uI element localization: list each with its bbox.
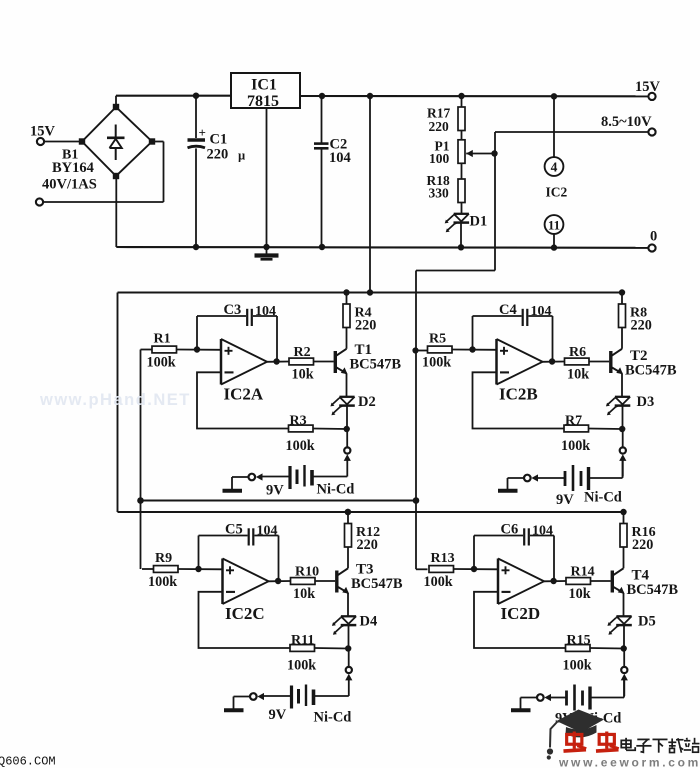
svg-text:R15: R15 [567,633,591,648]
svg-text:R2: R2 [294,345,311,360]
svg-text:R13: R13 [431,551,455,566]
wire [269,580,291,582]
node [367,289,373,295]
ground [224,708,244,712]
svg-text:9V: 9V [266,483,284,499]
wire [461,203,463,214]
svg-text:C1: C1 [210,132,228,148]
svg-text:IC2B: IC2B [499,385,538,404]
wire [621,293,623,305]
wire [199,592,291,648]
wire [177,349,222,351]
op-amp IC2A [221,339,267,404]
node [458,93,464,99]
svg-text:www.eeworm.com: www.eeworm.com [558,756,700,768]
wire 8.5-10V rail [495,131,649,133]
svg-text:9V: 9V [556,492,574,508]
transistor T3 [337,562,403,594]
LED D1 [445,214,488,233]
wire [140,350,142,570]
connector jack [621,667,628,681]
wire [623,512,625,524]
resistor R9 [142,551,178,590]
transistor T4 [612,568,678,599]
svg-text:100k: 100k [286,438,315,454]
svg-text:4: 4 [551,160,558,175]
wire [313,428,347,431]
svg-text:IC2D: IC2D [501,604,541,623]
wire [474,592,566,648]
node [367,93,373,99]
svg-text:11: 11 [548,218,560,233]
wire [346,373,348,396]
svg-text:D4: D4 [360,614,378,630]
regulator IC1 7815 [231,73,300,110]
wire [197,372,289,428]
svg-text:10k: 10k [567,367,589,383]
wire 0V rail [116,246,648,249]
svg-text:100k: 100k [424,574,453,590]
svg-text:Q606.COM: Q606.COM [0,755,56,768]
node IC2A output [273,358,279,364]
svg-text:R9: R9 [155,551,172,566]
svg-text:220: 220 [429,119,450,134]
wire [461,163,463,179]
wire [622,429,624,447]
svg-text:0: 0 [650,229,657,245]
wire [494,132,496,271]
node [413,497,420,504]
wire [152,142,164,203]
resistor R16 [620,524,656,554]
ground [223,489,243,493]
wire [591,580,611,582]
op-amp IC2D [498,559,544,624]
wire [315,580,335,582]
wire [232,477,248,489]
svg-text:220: 220 [355,318,376,334]
node IC2C output [275,578,281,584]
resistor R2 [289,345,314,383]
svg-text:BC547B: BC547B [627,582,679,598]
wire [623,649,625,667]
battery 9V / Ni-Cd cell s3 [264,685,351,726]
wire [553,96,555,157]
wire [416,270,495,272]
svg-text:7815: 7815 [247,93,279,110]
resistor R10 [291,565,320,603]
ground [511,708,531,712]
node [491,150,497,156]
wire [529,316,553,362]
svg-text:C3: C3 [224,302,242,318]
wire [199,536,248,570]
wire [347,547,349,568]
node R12 supply [345,509,351,515]
wire [115,176,117,247]
wire [267,361,289,363]
wire [348,649,350,667]
wire [622,406,624,428]
svg-text:8.5~10V: 8.5~10V [601,114,652,130]
svg-text:C6: C6 [501,522,519,538]
wire [622,460,624,477]
svg-text:9V: 9V [269,707,287,723]
svg-text:100k: 100k [287,658,316,674]
wire [454,568,499,570]
wire [530,536,554,582]
ground [498,489,518,493]
node emitter R7 [619,426,625,432]
wire [314,361,334,363]
node [319,244,325,250]
svg-text:220: 220 [631,318,652,334]
wire [178,568,223,570]
node [137,497,144,504]
switch plug [249,473,263,480]
node [263,244,269,250]
svg-text:D5: D5 [638,614,656,630]
IC2 pin 4 [545,157,564,176]
switch plug [250,693,264,700]
svg-text:R3: R3 [290,414,307,429]
svg-text:BC547B: BC547B [350,357,402,373]
resistor R11 [287,633,316,674]
switch plug [537,694,551,701]
wire [346,406,348,428]
output terminal 0V [648,229,657,252]
wire [315,647,349,650]
svg-text:100k: 100k [561,438,590,454]
node IC2B output [549,358,555,364]
wire [346,328,348,349]
svg-text:100k: 100k [422,355,451,371]
wire [473,372,565,428]
node R1 output [194,346,200,352]
svg-text:R11: R11 [291,633,314,648]
wire [543,361,565,363]
wire [521,698,537,709]
wire [460,224,462,248]
svg-text:15V: 15V [30,124,56,140]
node [551,244,557,250]
capacitor C3 [224,302,277,326]
output terminal 15V [635,79,661,100]
resistor R15 [563,633,592,674]
node R5 output [469,346,475,352]
wire [623,593,625,616]
wire [197,316,246,350]
wire stage supply rail [118,292,624,294]
resistor R8 [619,304,652,334]
node [193,93,199,99]
svg-text:IC1: IC1 [251,77,277,94]
resistor R14 [566,565,595,603]
svg-text:+: + [199,125,206,140]
node R8 supply [619,289,625,295]
connector jack [345,667,352,681]
wire [589,361,609,363]
op-amp IC2C [223,559,269,624]
connector jack [619,447,626,461]
wire [544,580,566,582]
svg-text:100k: 100k [147,355,176,371]
svg-text:µ: µ [238,149,245,163]
wire [452,349,497,351]
wire [43,201,163,203]
connector jack [344,447,351,461]
node emitter R3 [344,426,350,432]
op-amp IC2B [497,339,543,404]
wire [253,316,277,362]
svg-text:C4: C4 [499,302,517,318]
wire [115,96,117,107]
svg-text:BC547B: BC547B [625,363,677,379]
battery 9V / Ni-Cd cell s2 [538,460,623,509]
wire [255,536,279,582]
switch plug [524,474,538,481]
svg-text:R5: R5 [429,332,446,347]
svg-text:R6: R6 [569,345,586,360]
node emitter R15 [621,645,627,651]
watermark mortarboard logo [547,710,604,760]
wire [346,460,348,477]
svg-text:Ni-Cd: Ni-Cd [317,482,355,498]
svg-text:R14: R14 [571,565,595,580]
wire [369,96,371,293]
wiper of P1 [466,150,495,157]
wire 15V rail [116,95,649,98]
LED D5 [607,614,655,635]
wire [474,536,523,570]
svg-text:Ni-Cd: Ni-Cd [314,710,352,726]
svg-text:10k: 10k [293,586,315,602]
svg-text:10k: 10k [292,367,314,383]
resistor R7 [561,414,590,455]
svg-text:R1: R1 [154,332,171,347]
IC2 pin 11 [545,215,564,234]
svg-text:D2: D2 [358,394,376,410]
resistor R1 [141,332,177,371]
svg-text:100k: 100k [563,658,592,674]
label B1 [42,148,97,193]
svg-text:100: 100 [429,151,450,166]
wire [44,141,82,143]
wire [348,626,350,648]
node R9 output [195,566,201,572]
wire [553,234,555,248]
input terminal 15V AC [30,124,56,146]
faint watermark [39,391,191,409]
battery 9V / Ni-Cd cell s1 [263,465,355,499]
LED D3 [606,394,654,415]
wire [234,697,250,709]
svg-text:15V: 15V [635,79,661,95]
resistor R3 [286,414,315,455]
wire [348,679,350,696]
node [458,244,464,250]
svg-text:Ni-Cd: Ni-Cd [584,490,622,506]
wire [621,328,623,349]
node R4 supply [343,289,349,295]
svg-text:IC2C: IC2C [225,604,265,623]
svg-text:220: 220 [207,147,229,163]
svg-text:BY164: BY164 [52,160,94,176]
node R13 output [471,566,477,572]
resistor R17 [427,106,465,135]
resistor R4 [343,304,376,334]
LED D4 [332,614,377,635]
wire [590,647,624,650]
svg-text:D1: D1 [470,214,488,230]
node [345,509,351,515]
node R16 supply [620,509,626,515]
resistor R13 [416,551,455,590]
capacitor C1 [188,96,246,247]
potentiometer P1 [429,139,465,167]
battery 9V / Ni-Cd cell s4 [551,679,624,727]
capacitor C6 [501,522,554,546]
wire [589,428,623,431]
capacitor C4 [499,302,552,326]
svg-text:R10: R10 [295,565,319,580]
node [551,93,557,99]
wire [508,478,524,489]
input terminal AC return [36,198,43,205]
wire [623,679,625,696]
wire [461,131,463,140]
resistor R18 [427,173,466,203]
svg-text:104: 104 [329,150,351,166]
transistor T1 [335,342,401,374]
svg-text:220: 220 [357,537,378,553]
wire [266,108,268,247]
label IC2 [546,185,568,200]
svg-text:330: 330 [429,186,450,201]
wire [347,593,349,616]
wire [415,271,417,570]
svg-text:10k: 10k [569,586,591,602]
wire [623,547,625,568]
capacitor C2 [314,96,351,247]
resistor R5 [412,332,452,371]
svg-text:100k: 100k [148,574,177,590]
wire [621,373,623,396]
bridge rectifier B1 [79,104,155,179]
wire [346,293,348,305]
watermark text chongchong [563,732,618,752]
wire [473,316,522,350]
svg-text:D3: D3 [637,394,655,410]
LED D2 [330,394,375,415]
svg-text:IC2: IC2 [546,185,568,200]
wire [461,96,463,107]
transistor T2 [611,348,677,379]
node emitter R11 [345,645,351,651]
watermark text dianzixiazaizhan [621,738,699,753]
svg-text:40V/1AS: 40V/1AS [42,177,97,193]
watermark Q606.COM [0,755,56,768]
svg-text:IC2A: IC2A [224,385,264,404]
wire supply bus lower [118,511,624,513]
svg-text:BC547B: BC547B [351,576,403,592]
resistor R6 [565,345,590,383]
node [319,93,325,99]
wire [346,429,348,447]
node [193,244,199,250]
output terminal 8.5-10V [601,114,656,136]
svg-text:R7: R7 [565,414,582,429]
watermark url [558,756,700,768]
wire [623,626,625,648]
wire [117,293,119,513]
node IC2D output [550,578,556,584]
resistor R12 [345,524,381,554]
capacitor C5 [225,522,278,546]
wire [347,512,349,524]
ground [255,247,279,259]
svg-text:www.pHand.NET: www.pHand.NET [39,391,191,409]
wire reference bus [141,500,417,502]
svg-text:220: 220 [632,537,653,553]
svg-text:C5: C5 [225,522,243,538]
